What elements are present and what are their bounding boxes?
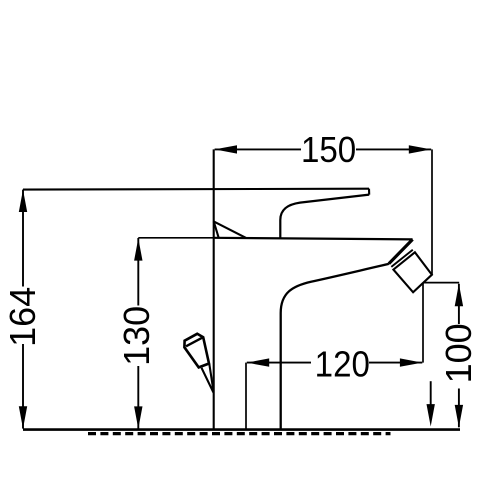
extension line top of 100 from outlet — [423, 282, 459, 284]
dimension 150 line right segment — [356, 148, 431, 150]
dimension 130 bottom arrowhead — [134, 406, 142, 428]
pop-up knob crease — [186, 337, 203, 346]
dimension 100 line upper segment — [458, 284, 460, 324]
lever tip right edge — [368, 189, 370, 195]
lever rear lower diagonal — [214, 221, 219, 238]
svg-text:100: 100 — [438, 323, 479, 383]
faucet body top line — [214, 238, 413, 240]
outlet drop arrow shaft — [430, 381, 432, 407]
svg-text:150: 150 — [301, 131, 356, 171]
dimension 120 left arrowhead — [247, 358, 269, 366]
spout underside and body left edge — [281, 264, 389, 430]
dimension 120 line right segment — [369, 362, 422, 364]
aerator body — [393, 252, 432, 292]
dimension 130 line lower segment — [137, 366, 139, 429]
svg-text:120: 120 — [315, 345, 370, 385]
extension line left of 150 / faucet left vertical edge — [213, 149, 215, 429]
outlet drop arrowhead — [427, 404, 435, 426]
dimension 164 top arrowhead — [19, 190, 27, 212]
lever front lower diagonal — [214, 221, 246, 237]
dimension 120 line left segment — [247, 362, 311, 364]
faucet top line (164 extension + lever top edge) — [23, 188, 369, 191]
dimension 164 bottom arrowhead — [19, 406, 27, 428]
dimension 150 left arrowhead — [215, 145, 237, 153]
extension line top of 130 — [138, 237, 213, 239]
extension line right of 150 down to aerator — [431, 149, 433, 274]
extension line right of 120 from outlet — [422, 283, 424, 363]
dimension 164 line lower segment — [22, 344, 24, 429]
svg-text:164: 164 — [2, 287, 43, 347]
dimension 150 right arrowhead — [409, 145, 431, 153]
dimension 100 line lower segment — [458, 389, 460, 428]
base surface line — [23, 428, 460, 431]
spout end face — [389, 239, 413, 263]
dimension 100 top arrowhead — [455, 284, 463, 306]
dimension 120 right arrowhead — [400, 358, 422, 366]
svg-text:130: 130 — [116, 306, 157, 366]
dimension 130 top arrowhead — [134, 238, 142, 260]
dimension 130 line upper segment — [137, 238, 139, 306]
dimension 150 line left segment — [215, 148, 301, 150]
base hatching dashed line — [88, 432, 391, 435]
pop-up rod knob — [184, 334, 209, 368]
pop-up rod — [202, 364, 214, 391]
dimension 100 bottom arrowhead — [455, 405, 463, 427]
dimension 164 line upper segment — [22, 190, 24, 287]
extension line left of 120 (body axis) — [245, 363, 247, 430]
lever underside — [280, 195, 369, 238]
aerator collar line — [391, 250, 413, 267]
